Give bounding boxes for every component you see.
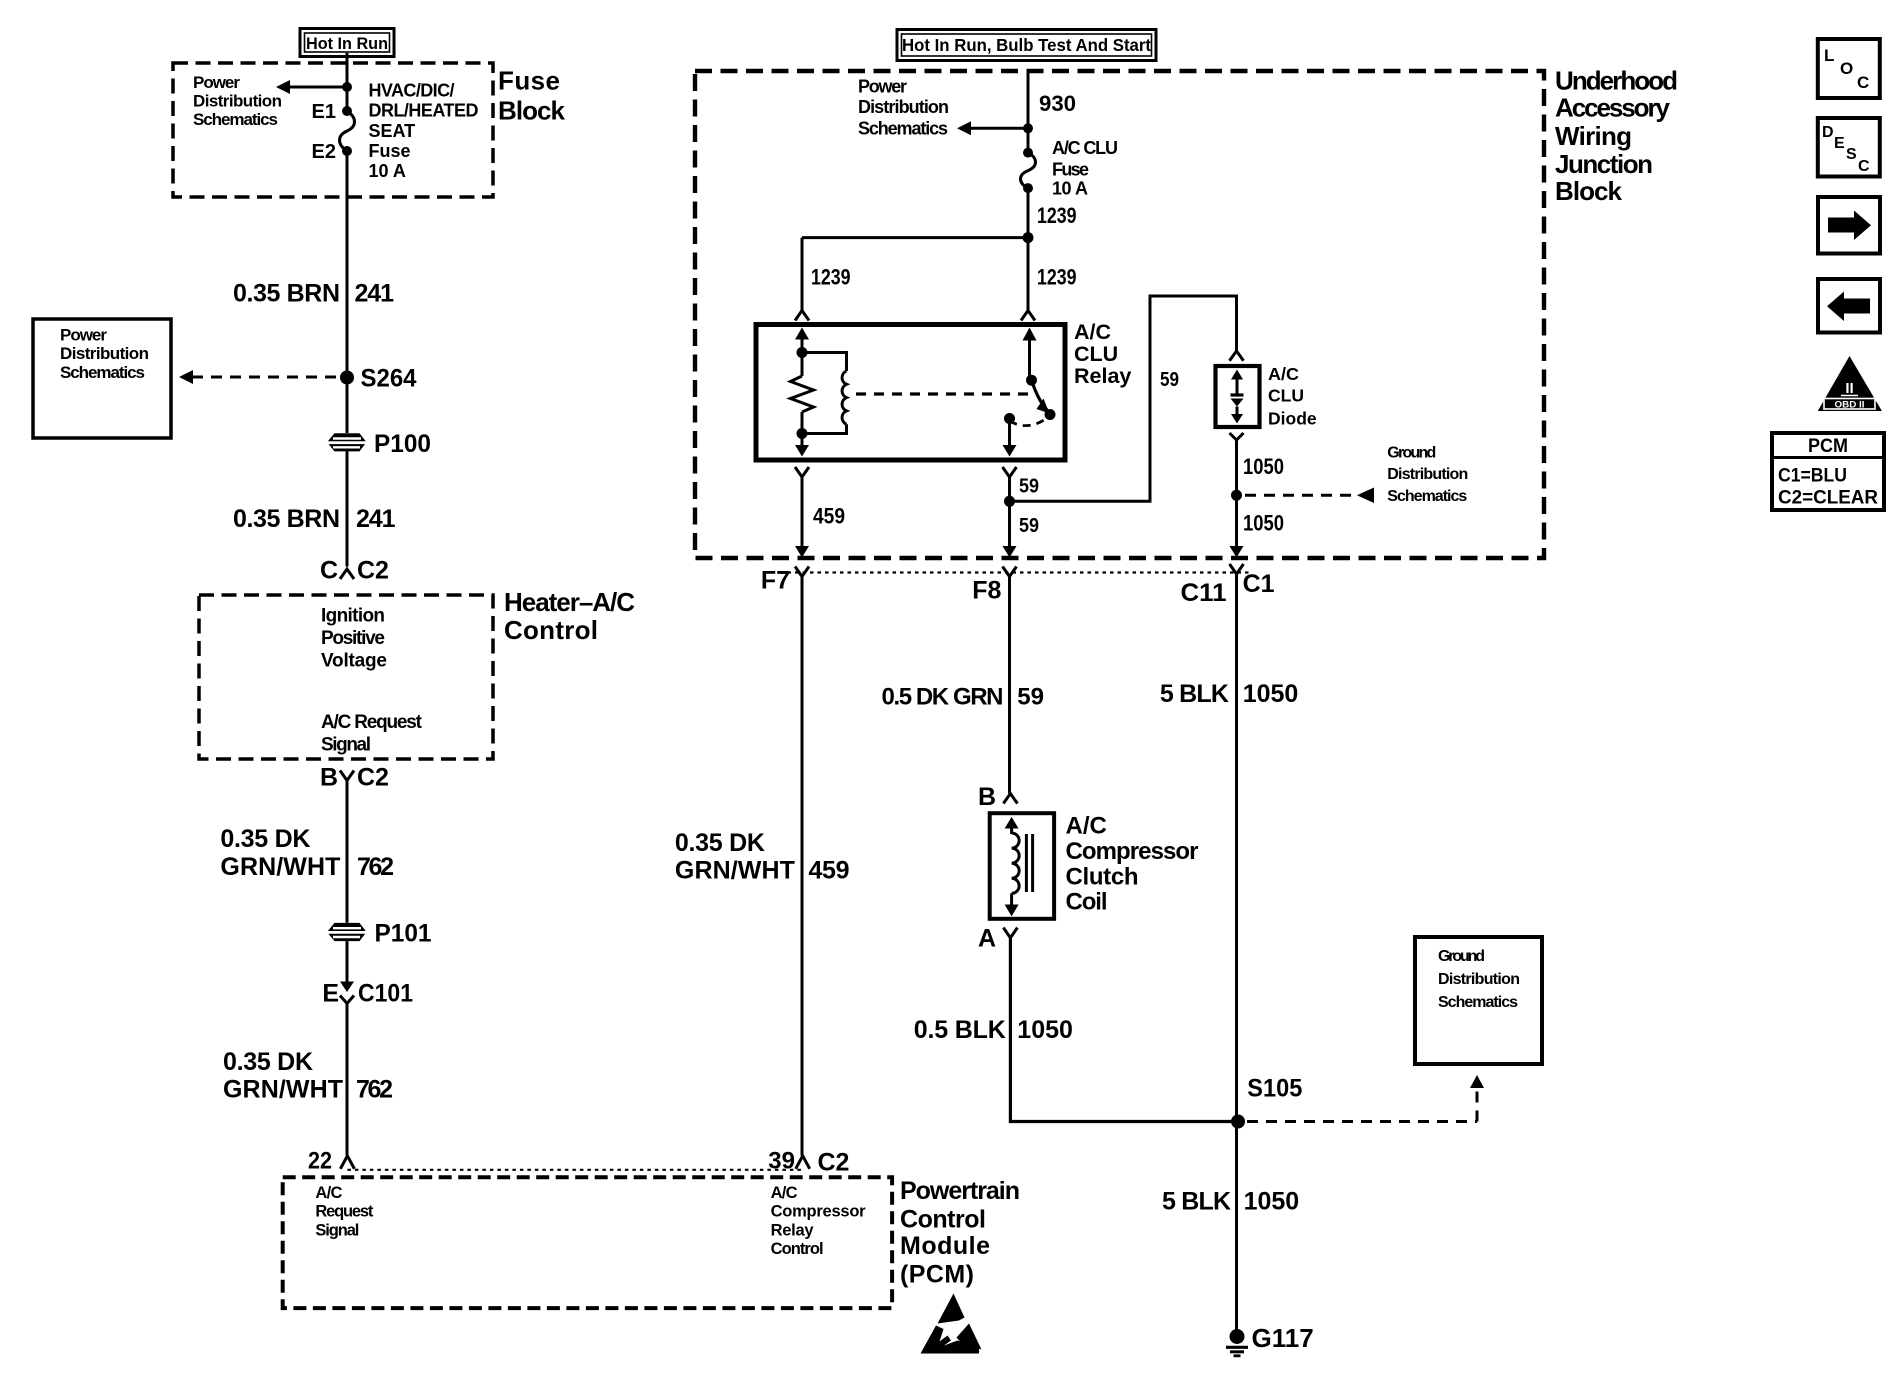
text: Ignition Positive Voltage: [321, 606, 387, 672]
label: A/C CLU Relay: [1074, 320, 1131, 388]
pin chevron into relay (right): [1021, 311, 1035, 321]
pin chevron into relay (left): [795, 311, 809, 321]
dashed arrow to ground distribution schematics text: [1245, 488, 1374, 504]
text: A/C CLU Fuse 10 A: [1052, 138, 1118, 198]
svg-text:Hot In Run: Hot In Run: [306, 34, 388, 53]
ESD sensitivity symbol: [921, 1294, 982, 1354]
pin chevron below relay (F7 side): [795, 467, 809, 477]
text: Power Distribution Schematics (fuse block): [193, 73, 282, 129]
text: Ground Distribution Schematics (junction block): [1387, 444, 1468, 505]
wire 1050 coil to S105: [1010, 938, 1238, 1122]
wire: 59 loop to diode: [1010, 296, 1237, 501]
connector P100: [327, 430, 431, 458]
svg-text:762: 762: [356, 1075, 393, 1103]
svg-text:5 BLK: 5 BLK: [1162, 1187, 1231, 1215]
label: Powertrain Control Module (PCM): [900, 1177, 1020, 1289]
svg-text:39: 39: [768, 1148, 795, 1175]
relay box A/C CLU Relay: [756, 325, 1065, 461]
pin B of connector C2 (heater control): [320, 763, 389, 791]
svg-text:D: D: [1822, 124, 1834, 141]
svg-text:F8: F8: [972, 577, 1001, 605]
arrow to power distribution schematics (junction block): [957, 121, 1028, 135]
svg-text:GRN/WHT: GRN/WHT: [675, 856, 795, 884]
svg-text:P100: P100: [374, 430, 431, 458]
svg-text:S105: S105: [1247, 1075, 1302, 1103]
wire 241 lower: [346, 451, 349, 566]
svg-text:Distribution: Distribution: [1387, 466, 1468, 483]
wire 762 lower: [346, 1004, 349, 1156]
pin 22 of PCM: [308, 1148, 354, 1175]
connector face dotted line C1: [780, 571, 1250, 573]
svg-text:Relay: Relay: [1074, 364, 1131, 388]
node: relay output contact: [1004, 413, 1015, 424]
connector face dotted line at PCM: [347, 1169, 802, 1171]
svg-text:SEAT: SEAT: [369, 121, 416, 141]
svg-text:C1: C1: [1243, 570, 1275, 598]
pin F7: [761, 566, 809, 594]
svg-text:Control: Control: [504, 615, 598, 645]
fuse HVAC/DIC/DRL/HEATED SEAT 10 A: [312, 101, 355, 163]
svg-text:G117: G117: [1252, 1323, 1314, 1353]
label 5 BLK 1050 (upper): [1160, 680, 1298, 708]
svg-text:C2: C2: [357, 763, 389, 791]
svg-text:Power: Power: [193, 73, 240, 92]
svg-text:Control: Control: [900, 1205, 986, 1233]
label: Underhood Accessory Wiring Junction Block: [1555, 65, 1678, 206]
svg-text:A/C CLU: A/C CLU: [1052, 138, 1118, 158]
svg-text:459: 459: [813, 503, 845, 528]
wire fuse to junction: [1027, 188, 1030, 238]
wire 1050 to C11: [1230, 495, 1244, 557]
svg-text:C11: C11: [1181, 579, 1227, 607]
relay output arrow: [1003, 419, 1017, 457]
icon: OBD II triangle: [1818, 356, 1882, 411]
svg-text:C: C: [320, 557, 338, 585]
svg-text:Signal: Signal: [321, 734, 371, 755]
svg-text:B: B: [978, 783, 996, 811]
wire 1050 from diode: [1235, 440, 1238, 495]
svg-text:59: 59: [1019, 515, 1039, 537]
wire to C101: [346, 941, 349, 982]
icon: previous arrow box: [1818, 279, 1880, 333]
svg-text:Block: Block: [498, 96, 566, 126]
node S105: [1231, 1075, 1302, 1129]
label: A/C Compressor Clutch Coil: [1066, 812, 1199, 915]
node: 1050 junction: [1231, 490, 1242, 501]
clutch coil internals: [1005, 817, 1033, 917]
label 0.35 BRN 241 (upper): [233, 280, 394, 308]
label: A/C CLU Diode: [1268, 364, 1317, 428]
svg-text:Compressor: Compressor: [1066, 838, 1199, 865]
wire 59 F8 to clutch coil: [1008, 577, 1011, 794]
svg-text:Clutch: Clutch: [1066, 863, 1139, 890]
svg-text:Fuse: Fuse: [369, 141, 411, 161]
label 5 BLK 1050 (lower): [1162, 1187, 1299, 1215]
text: A/C Request Signal (PCM): [315, 1184, 374, 1239]
pin B of clutch coil: [978, 783, 1017, 811]
svg-text:1239: 1239: [1037, 265, 1077, 290]
pin A of clutch coil: [978, 925, 1017, 953]
svg-text:S264: S264: [361, 364, 417, 392]
label 0.35 DK GRN/WHT 762 (upper): [220, 825, 394, 881]
pin C of connector C2 (heater control): [320, 557, 389, 585]
relay coil input arrow: [795, 328, 809, 353]
node: blade end: [1045, 409, 1056, 420]
legend: PCM connector colors: [1772, 433, 1884, 510]
box: Power Distribution Schematics: [33, 319, 171, 438]
svg-text:Compressor: Compressor: [771, 1203, 867, 1221]
pin F8: [972, 567, 1016, 605]
svg-text:1050: 1050: [1243, 680, 1299, 708]
svg-text:E: E: [1834, 135, 1845, 152]
svg-text:C2: C2: [818, 1149, 850, 1177]
svg-text:Hot In Run, Bulb Test And Star: Hot In Run, Bulb Test And Start: [902, 35, 1151, 55]
Heater-A/C Control dashed box: [199, 595, 493, 759]
label 0.35 BRN 241 (lower): [233, 505, 396, 533]
svg-text:Distribution: Distribution: [858, 97, 949, 117]
dashed arrow to Ground Distribution Schematics box: [1247, 1075, 1484, 1122]
svg-text:Schematics: Schematics: [1387, 488, 1467, 505]
svg-text:5 BLK: 5 BLK: [1160, 680, 1229, 708]
label 0.35 DK GRN/WHT 459: [675, 829, 850, 885]
svg-text:459: 459: [809, 856, 850, 884]
svg-text:Relay: Relay: [771, 1221, 815, 1239]
svg-text:Power: Power: [60, 326, 107, 345]
connector P101: [327, 920, 432, 948]
text: HVAC/DIC/ DRL/HEATED SEAT Fuse 10 A: [369, 80, 479, 180]
svg-text:Wiring: Wiring: [1555, 121, 1632, 151]
svg-text:Signal: Signal: [315, 1221, 359, 1239]
svg-text:Ground: Ground: [1438, 948, 1485, 965]
svg-text:1050: 1050: [1244, 1187, 1300, 1215]
svg-text:C101: C101: [358, 980, 413, 1008]
svg-text:CLU: CLU: [1268, 386, 1304, 406]
svg-text:S: S: [1846, 146, 1857, 163]
svg-text:0.5 BLK: 0.5 BLK: [914, 1016, 1006, 1044]
svg-text:F7: F7: [761, 566, 790, 594]
relay coil winding: [802, 353, 847, 434]
svg-text:A/C: A/C: [771, 1184, 798, 1202]
svg-text:PCM: PCM: [1808, 436, 1848, 457]
svg-text:P101: P101: [375, 920, 432, 948]
svg-text:Diode: Diode: [1268, 408, 1317, 428]
svg-text:930: 930: [1039, 91, 1076, 116]
icon: DESC box: [1818, 118, 1880, 177]
svg-text:C: C: [1858, 158, 1870, 175]
svg-text:59: 59: [1160, 369, 1179, 391]
svg-text:Schematics: Schematics: [193, 110, 278, 129]
svg-text:59: 59: [1017, 684, 1044, 711]
svg-text:Positive: Positive: [321, 628, 385, 649]
pin chevron into diode: [1230, 351, 1244, 361]
label box: Hot In Run: [300, 29, 394, 57]
svg-text:10 A: 10 A: [1052, 179, 1088, 199]
node: 59 branch: [1004, 496, 1015, 507]
relay common arrow: [1023, 328, 1037, 377]
svg-text:59: 59: [1019, 476, 1039, 498]
wire S264 to P100: [346, 385, 349, 434]
label 0.5 BLK 1050: [914, 1016, 1073, 1044]
svg-text:L: L: [1824, 46, 1834, 65]
svg-text:A/C Request: A/C Request: [321, 712, 423, 733]
svg-text:Junction: Junction: [1555, 149, 1653, 179]
svg-text:22: 22: [308, 1148, 332, 1175]
inline connector E / C101: [322, 980, 413, 1008]
svg-text:Module: Module: [900, 1232, 990, 1260]
pin 39 of PCM connector C2: [768, 1148, 849, 1177]
dashed actuation link: [856, 392, 1035, 395]
svg-text:HVAC/DIC/: HVAC/DIC/: [369, 80, 455, 100]
node S264: [340, 364, 417, 392]
svg-text:OBD II: OBD II: [1835, 400, 1865, 411]
svg-text:1050: 1050: [1243, 454, 1284, 479]
svg-text:Power: Power: [858, 77, 907, 97]
node: junction at arrow: [342, 82, 352, 92]
svg-text:C1=BLU: C1=BLU: [1778, 466, 1847, 487]
svg-text:GRN/WHT: GRN/WHT: [220, 853, 340, 881]
node: 1239 branch junction: [1023, 232, 1034, 243]
pin chevron below diode: [1230, 433, 1244, 440]
A/C Compressor Clutch Coil box: [990, 813, 1054, 919]
svg-text:762: 762: [357, 853, 394, 881]
svg-text:Distribution: Distribution: [60, 344, 149, 363]
svg-text:Ignition: Ignition: [321, 606, 385, 627]
svg-text:1050: 1050: [1243, 511, 1284, 536]
svg-text:A: A: [978, 925, 996, 953]
svg-text:A/C: A/C: [1268, 364, 1299, 384]
svg-text:Distribution: Distribution: [193, 92, 282, 111]
svg-text:Schematics: Schematics: [1438, 994, 1518, 1011]
ground G117: [1226, 1323, 1314, 1356]
label 0.35 DK GRN/WHT 762 (lower): [223, 1048, 393, 1103]
dashed arrow to Power Distribution Schematics box: [179, 370, 341, 384]
svg-text:Block: Block: [1555, 176, 1623, 206]
svg-text:0.5 DK GRN: 0.5 DK GRN: [882, 684, 1004, 711]
node: relay coil bottom: [797, 428, 808, 439]
icon: next arrow box: [1818, 197, 1880, 254]
svg-text:Request: Request: [315, 1203, 374, 1221]
svg-text:Schematics: Schematics: [858, 119, 948, 139]
diode box A/C CLU Diode: [1216, 366, 1260, 427]
svg-text:A/C: A/C: [315, 1184, 342, 1202]
svg-text:241: 241: [355, 280, 395, 308]
svg-text:0.35 DK: 0.35 DK: [220, 825, 310, 853]
pin C11 / C1: [1181, 564, 1275, 607]
fuse A/C CLU 10 A: [1021, 148, 1036, 194]
svg-text:Fuse: Fuse: [498, 66, 560, 96]
svg-text:0.35 BRN: 0.35 BRN: [233, 280, 340, 308]
wire: fuse feed from Hot In Run: [346, 53, 349, 111]
fuse block dashed box: [173, 63, 493, 197]
resistor (relay): [791, 353, 814, 434]
svg-text:O: O: [1840, 59, 1853, 78]
svg-text:Accessory: Accessory: [1555, 93, 1671, 123]
svg-text:Coil: Coil: [1066, 888, 1108, 915]
svg-text:II: II: [1845, 380, 1853, 397]
diode internals: [1231, 370, 1244, 424]
svg-text:A/C: A/C: [1066, 812, 1107, 839]
svg-text:C2: C2: [357, 557, 389, 585]
svg-text:DRL/HEATED: DRL/HEATED: [369, 100, 479, 120]
svg-text:Ground: Ground: [1387, 444, 1436, 461]
svg-text:Control: Control: [771, 1240, 824, 1258]
svg-text:0.35 DK: 0.35 DK: [675, 829, 765, 857]
svg-text:Heater–A/C: Heater–A/C: [504, 587, 635, 617]
svg-text:0.35 BRN: 0.35 BRN: [233, 505, 340, 533]
svg-text:10 A: 10 A: [369, 161, 406, 181]
svg-text:Underhood: Underhood: [1555, 65, 1678, 95]
svg-text:Fuse: Fuse: [1052, 160, 1089, 180]
icon: LOC box: [1818, 39, 1880, 98]
node: junction at 930 arrow: [1023, 123, 1033, 133]
node: relay coil top: [797, 347, 808, 358]
node: switch pivot: [1026, 375, 1037, 386]
text: Power Distribution Schematics (junction block): [858, 77, 949, 139]
wire: 1239 branch horizontal: [802, 236, 1028, 239]
wire 459 (F7 to PCM pin 39): [801, 577, 804, 1156]
svg-text:Distribution: Distribution: [1438, 971, 1520, 988]
svg-text:Voltage: Voltage: [321, 651, 387, 672]
svg-text:Powertrain: Powertrain: [900, 1177, 1020, 1205]
pin chevron below relay (F8 side): [1003, 467, 1017, 477]
svg-text:C2=CLEAR: C2=CLEAR: [1778, 488, 1878, 509]
arrow to power distribution schematics: [276, 80, 347, 94]
svg-text:241: 241: [356, 505, 396, 533]
switch blade: [1032, 380, 1050, 413]
dashed travel arc: [1010, 417, 1049, 426]
svg-text:1239: 1239: [1037, 203, 1077, 228]
svg-text:E2: E2: [312, 141, 336, 163]
svg-text:E: E: [322, 980, 339, 1008]
wire 930 feed: [1027, 71, 1030, 153]
Underhood Accessory Wiring Junction Block dashed box: [695, 71, 1544, 558]
wire: 1239 right drop: [1027, 238, 1030, 311]
text: A/C Compressor Relay Control (PCM): [771, 1184, 867, 1258]
wire 241 upper: [346, 151, 349, 371]
label: Fuse Block: [498, 66, 566, 126]
box: Ground Distribution Schematics: [1415, 937, 1542, 1064]
wire 59 to F8: [1003, 501, 1017, 557]
relay coil output arrow: [795, 434, 809, 457]
wire 459 inside block: [795, 477, 809, 558]
svg-text:B: B: [320, 763, 338, 791]
wire 5 BLK 1050 C1 to S105 to G117: [1235, 574, 1238, 1331]
label: Heater-A/C Control: [504, 587, 635, 645]
svg-text:Schematics: Schematics: [60, 363, 145, 382]
svg-text:E1: E1: [312, 101, 336, 123]
svg-text:(PCM): (PCM): [900, 1261, 974, 1289]
svg-text:GRN/WHT: GRN/WHT: [223, 1075, 343, 1103]
svg-text:1239: 1239: [811, 265, 851, 290]
svg-text:C: C: [1857, 73, 1869, 92]
text: A/C Request Signal (heater control): [321, 712, 423, 755]
label 0.5 DK GRN 59: [882, 684, 1045, 711]
wire: 1239 left drop: [801, 238, 804, 311]
svg-text:1050: 1050: [1017, 1016, 1073, 1044]
wire 59 from relay: [1008, 477, 1011, 501]
svg-text:0.35 DK: 0.35 DK: [223, 1048, 313, 1076]
svg-text:CLU: CLU: [1074, 342, 1118, 366]
wire 762 upper: [346, 781, 349, 923]
label box: Hot In Run, Bulb Test And Start: [897, 30, 1156, 61]
PCM dashed box: [283, 1177, 892, 1308]
svg-text:A/C: A/C: [1074, 320, 1111, 344]
